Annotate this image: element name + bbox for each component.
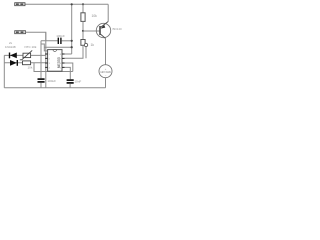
svg-text:10k: 10k (92, 14, 98, 18)
wire pin6 down (65, 63, 73, 72)
junction dot reset/vcc (71, 46, 73, 48)
wire R1 to base junction (82, 21, 84, 31)
node VCC vertical (71, 4, 73, 54)
svg-text:NTC 10k: NTC 10k (25, 45, 37, 49)
wire left pins vertical (45, 32, 47, 88)
svg-text:10nF: 10nF (74, 80, 81, 84)
wire stair gnd jog (41, 44, 48, 51)
svg-text:BD140: BD140 (113, 27, 123, 31)
wire pin8 to VCC (65, 53, 72, 55)
node open terminal drop (85, 47, 87, 59)
capacitor C2 100uF (38, 79, 57, 88)
resistor R2 (81, 31, 94, 47)
wire bottom rail (4, 87, 105, 89)
connector J2 (15, 31, 26, 34)
resistor R1 (81, 4, 97, 21)
wire branch1 (4, 54, 46, 56)
svg-text:−: − (105, 74, 107, 77)
wire J2 to net (26, 32, 46, 41)
wire branch2 (4, 62, 46, 64)
connector J1 (15, 3, 25, 6)
resistor R3 (23, 61, 33, 69)
wire left drop (3, 55, 5, 87)
wire collector to fan (105, 38, 107, 64)
transistor Q1 BD140 (96, 22, 122, 39)
capacitor C1 100nF (41, 34, 72, 44)
wire gnd vertical left (40, 41, 42, 79)
diode D1 1N4148 (10, 53, 17, 59)
capacitor C3 10nF (67, 80, 82, 88)
wire top rail (25, 3, 108, 5)
node open terminal (84, 43, 87, 46)
wire R3 node to cap (34, 63, 73, 72)
svg-text:10k: 10k (28, 65, 33, 69)
wire reset rail (44, 46, 71, 48)
svg-text:1N4148: 1N4148 (5, 45, 16, 49)
diode D2 1N4148 (10, 60, 17, 66)
junction dot top rail R1 (82, 3, 84, 5)
IC U1 NE555 (45, 50, 64, 72)
junction dot VCC cap (71, 40, 73, 42)
wire base (83, 30, 100, 32)
node base junction (82, 30, 84, 32)
svg-text:12V FAN: 12V FAN (100, 70, 111, 74)
wire emitter drop (107, 4, 109, 21)
svg-text:100nF: 100nF (56, 34, 65, 38)
wire R2 to pin7 (65, 45, 84, 58)
svg-text:100uF: 100uF (47, 79, 56, 83)
wire fan to rail (105, 78, 107, 88)
junction dot top rail VCC (71, 3, 73, 5)
motor M1 12V FAN (99, 65, 112, 78)
wire pin5 down (65, 67, 71, 79)
svg-text:1k: 1k (91, 43, 95, 47)
thermistor NTC (20, 45, 37, 60)
